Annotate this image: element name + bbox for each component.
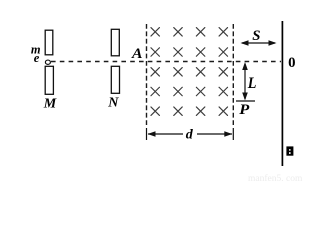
svg-text:manfen5. com: manfen5. com (248, 173, 303, 183)
svg-text:A: A (131, 46, 143, 62)
svg-text:L: L (247, 75, 257, 92)
svg-text:M: M (43, 96, 57, 111)
svg-text:e: e (34, 50, 40, 65)
svg-text:0: 0 (288, 55, 295, 71)
svg-text:d: d (186, 127, 194, 142)
svg-text:P: P (239, 102, 250, 118)
svg-text:N: N (107, 96, 119, 111)
svg-text:S: S (252, 28, 260, 44)
